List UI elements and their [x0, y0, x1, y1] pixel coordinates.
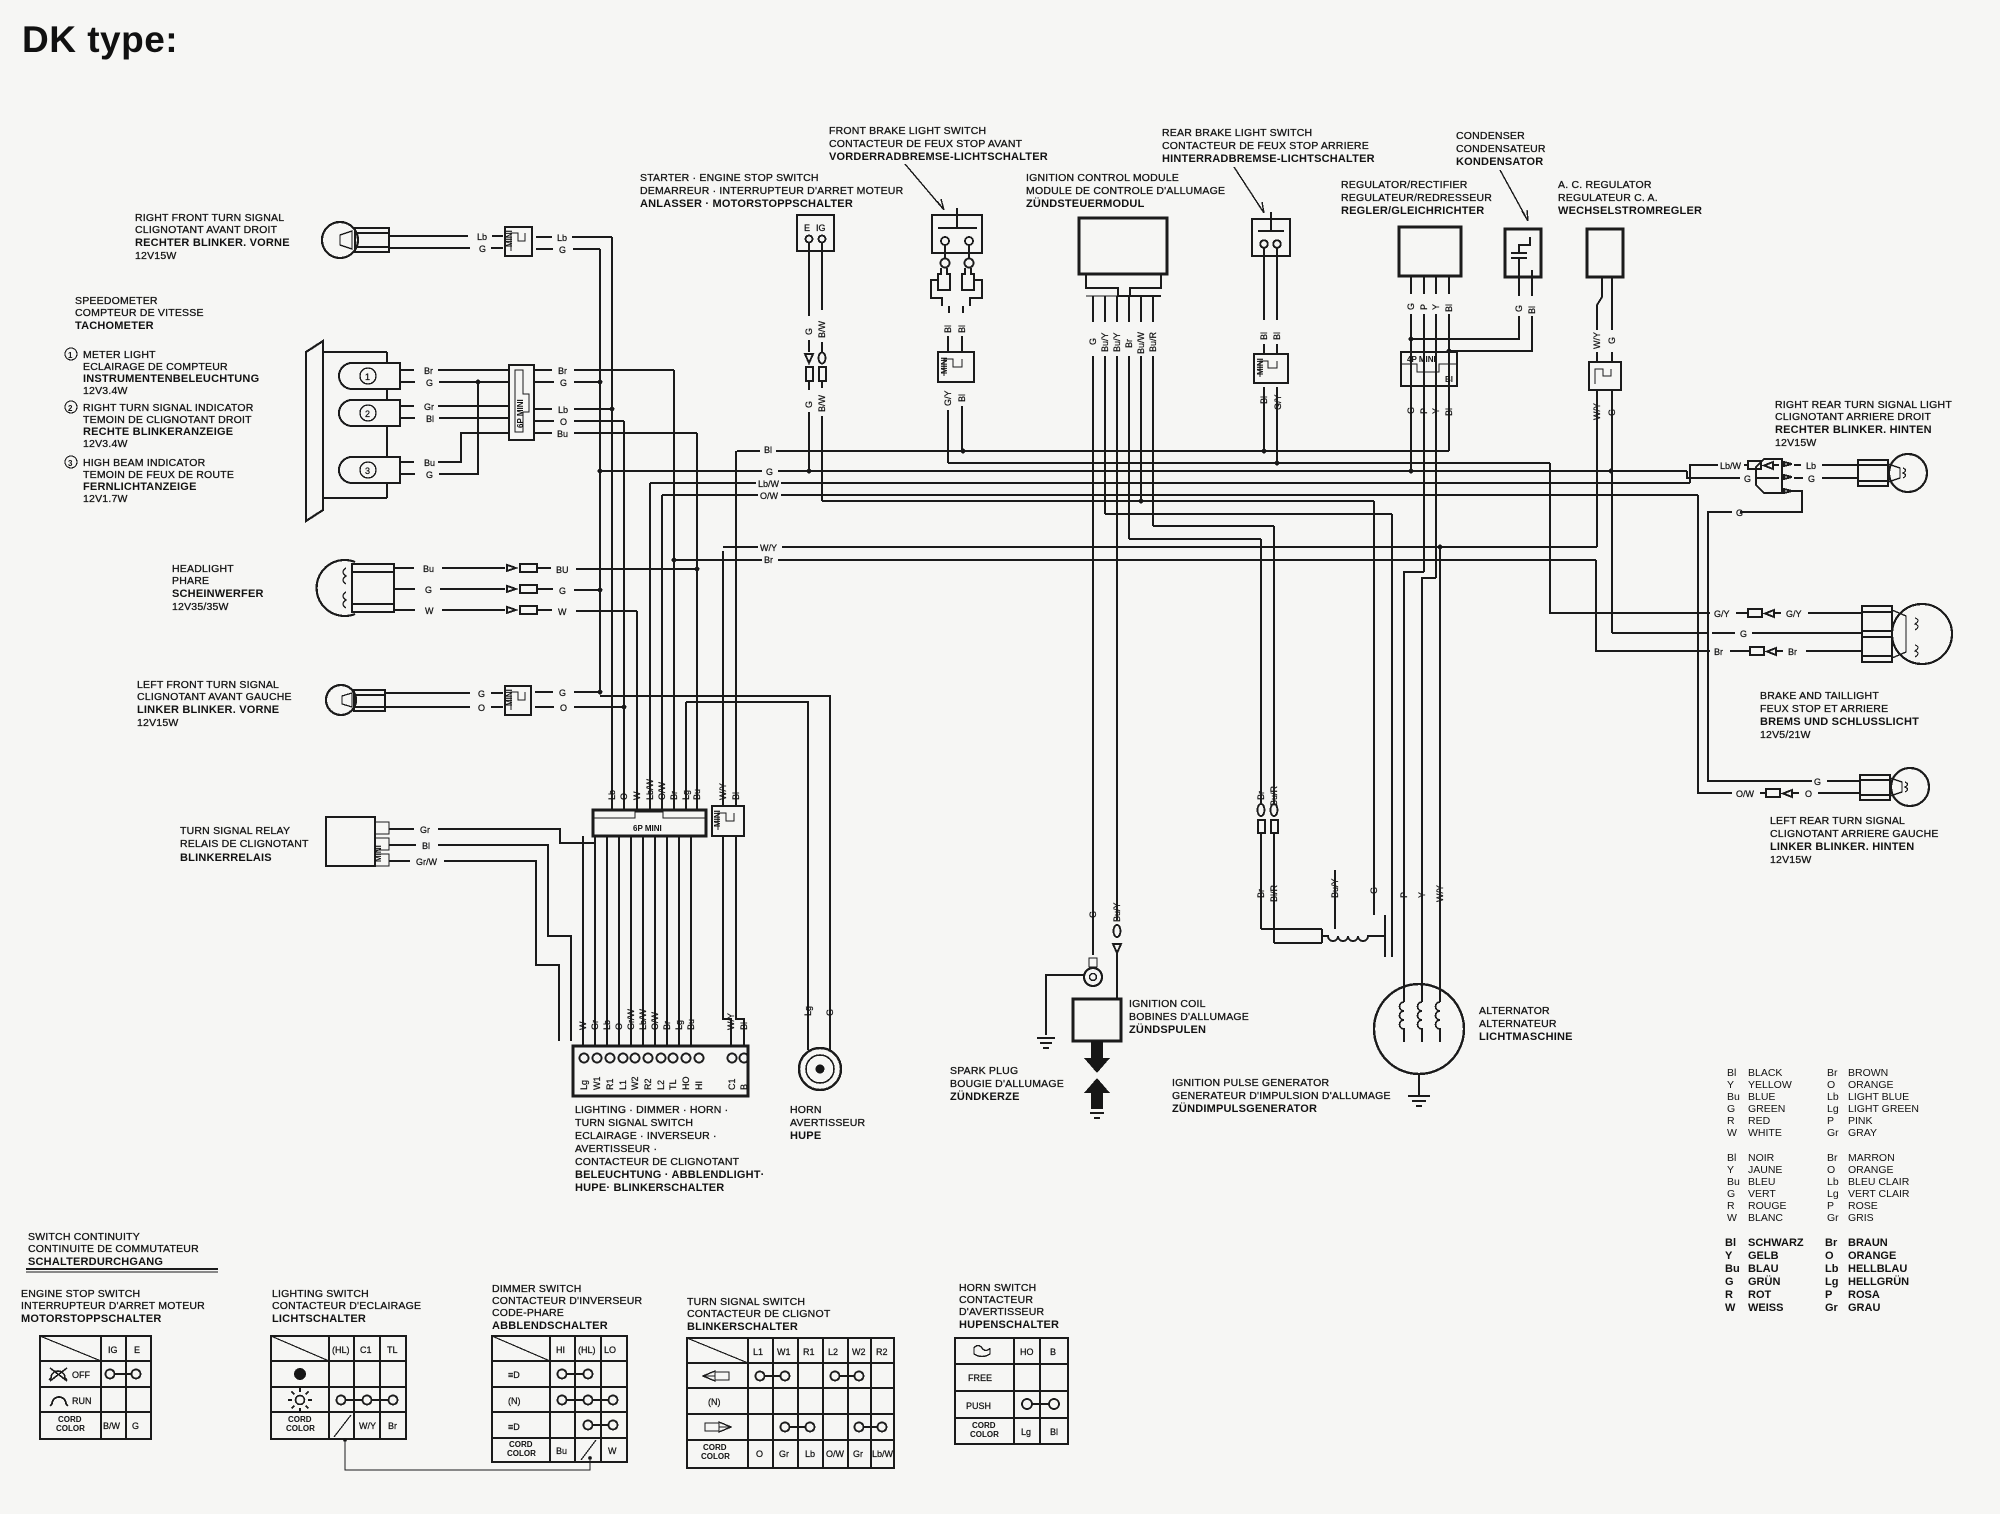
brake and taillight label	[1760, 690, 1919, 741]
svg-text:DEMARREUR · INTERRUPTEUR D'ARR: DEMARREUR · INTERRUPTEUR D'ARRET MOTEUR	[640, 185, 904, 197]
annotation line lighting to dimmer	[345, 1440, 590, 1470]
svg-text:BROWN: BROWN	[1848, 1067, 1888, 1079]
taillight wire Br with bullets	[1596, 560, 1862, 657]
meter connector right wires Br G Lb O Bu	[534, 366, 697, 439]
spark plug arrows	[1084, 1041, 1110, 1109]
ignition coil wire labels G Bu/Y	[1088, 902, 1122, 922]
svg-text:FREE: FREE	[968, 1373, 992, 1383]
svg-text:CLIGNOTANT AVANT DROIT: CLIGNOTANT AVANT DROIT	[135, 224, 278, 236]
svg-text:IGNITION PULSE GENERATOR: IGNITION PULSE GENERATOR	[1172, 1077, 1329, 1089]
svg-text:Bl: Bl	[1725, 1237, 1736, 1249]
svg-text:VORDERRADBREMSE-LICHTSCHALTER: VORDERRADBREMSE-LICHTSCHALTER	[829, 151, 1048, 163]
svg-text:L2: L2	[828, 1347, 838, 1357]
condenser box with capacitor symbol	[1505, 229, 1541, 277]
svg-text:ROT: ROT	[1748, 1289, 1772, 1301]
svg-text:P: P	[1825, 1289, 1832, 1301]
horn	[799, 1040, 841, 1090]
svg-text:G: G	[560, 378, 567, 388]
svg-text:4P MINI: 4P MINI	[1407, 355, 1436, 364]
svg-text:RELAIS DE CLIGNOTANT: RELAIS DE CLIGNOTANT	[180, 838, 309, 850]
svg-text:COLOR: COLOR	[701, 1452, 730, 1461]
svg-text:FERNLICHTANZEIGE: FERNLICHTANZEIGE	[83, 481, 197, 493]
svg-text:Bl: Bl	[1444, 408, 1454, 416]
svg-text:LINKER BLINKER. HINTEN: LINKER BLINKER. HINTEN	[1770, 841, 1914, 853]
svg-text:LIGHTING SWITCH: LIGHTING SWITCH	[272, 1288, 369, 1300]
svg-text:LIGHT GREEN: LIGHT GREEN	[1848, 1103, 1919, 1115]
svg-text:Bu: Bu	[1727, 1091, 1740, 1103]
svg-text:G/Y: G/Y	[1714, 609, 1730, 619]
svg-text:NOIR: NOIR	[1748, 1152, 1775, 1164]
taillight wire G	[1612, 629, 1862, 639]
svg-text:FRONT BRAKE LIGHT SWITCH: FRONT BRAKE LIGHT SWITCH	[829, 125, 986, 137]
svg-text:W2: W2	[852, 1347, 866, 1357]
wire G to left rear turn signal	[1708, 777, 1860, 787]
svg-text:O/W: O/W	[826, 1449, 845, 1459]
svg-text:TACHOMETER: TACHOMETER	[75, 320, 154, 332]
svg-text:Br: Br	[1827, 1067, 1838, 1079]
svg-text:12V15W: 12V15W	[1770, 854, 1811, 866]
condenser wires G Bl	[1409, 270, 1537, 353]
bus O/W	[662, 491, 1698, 501]
svg-text:G: G	[1725, 1276, 1734, 1288]
svg-text:Gr: Gr	[1827, 1212, 1839, 1224]
turn signal switch table	[687, 1338, 894, 1468]
svg-text:1: 1	[68, 351, 73, 360]
svg-text:REGULATOR/RECTIFIER: REGULATOR/RECTIFIER	[1341, 179, 1468, 191]
svg-text:WECHSELSTROMREGLER: WECHSELSTROMREGLER	[1558, 205, 1702, 217]
svg-text:LEFT FRONT TURN SIGNAL: LEFT FRONT TURN SIGNAL	[137, 679, 279, 691]
svg-text:ALTERNATOR: ALTERNATOR	[1479, 1005, 1550, 1017]
svg-text:O: O	[1827, 1079, 1835, 1091]
svg-text:G: G	[478, 689, 485, 699]
svg-text:LINKER BLINKER. VORNE: LINKER BLINKER. VORNE	[137, 704, 279, 716]
svg-text:O/W: O/W	[657, 781, 667, 800]
svg-text:BRAUN: BRAUN	[1848, 1237, 1888, 1249]
svg-text:G: G	[1727, 1103, 1735, 1115]
svg-text:RIGHT FRONT TURN SIGNAL: RIGHT FRONT TURN SIGNAL	[135, 212, 284, 224]
svg-text:Lb: Lb	[805, 1449, 815, 1459]
svg-text:Gr: Gr	[1827, 1127, 1839, 1139]
svg-text:G: G	[426, 378, 433, 388]
svg-text:BLINKERSCHALTER: BLINKERSCHALTER	[687, 1321, 798, 1333]
headlight bulb	[317, 560, 394, 616]
svg-text:G: G	[1736, 508, 1743, 518]
color code legend french	[1727, 1152, 1910, 1224]
svg-text:CONTACTEUR: CONTACTEUR	[959, 1294, 1033, 1306]
svg-text:G: G	[559, 688, 566, 698]
rear brake light switch box	[1252, 212, 1290, 256]
svg-text:G: G	[1740, 629, 1747, 639]
lighting dimmer horn turn signal switch connector	[573, 1046, 749, 1096]
svg-text:Br: Br	[662, 1021, 672, 1030]
svg-text:Bu: Bu	[424, 458, 435, 468]
svg-text:G: G	[1744, 474, 1751, 484]
svg-text:RECHTE BLINKERANZEIGE: RECHTE BLINKERANZEIGE	[83, 426, 233, 438]
svg-text:Bl: Bl	[1527, 306, 1537, 314]
wire vertical G net	[599, 249, 601, 692]
svg-text:Bu: Bu	[1725, 1263, 1740, 1275]
svg-text:CONTACTEUR D'ECLAIRAGE: CONTACTEUR D'ECLAIRAGE	[272, 1300, 421, 1312]
wire G loop third pin	[1708, 491, 1808, 781]
svg-text:BLAU: BLAU	[1748, 1263, 1779, 1275]
svg-text:G: G	[425, 585, 432, 595]
svg-text:BOBINES D'ALLUMAGE: BOBINES D'ALLUMAGE	[1129, 1011, 1249, 1023]
horn wires Lg G	[600, 696, 835, 1048]
svg-text:Lb: Lb	[602, 1020, 612, 1030]
svg-text:12V1.7W: 12V1.7W	[83, 493, 128, 505]
svg-text:Y: Y	[1431, 408, 1441, 414]
ignition control module box	[1079, 218, 1167, 296]
svg-text:HELLBLAU: HELLBLAU	[1848, 1263, 1907, 1275]
wire Lb/W to right rear turn signal	[1690, 461, 1779, 483]
turn signal switch table label	[687, 1296, 831, 1333]
svg-text:LO: LO	[604, 1345, 616, 1355]
svg-text:B: B	[1050, 1347, 1056, 1357]
svg-text:MARRON: MARRON	[1848, 1152, 1895, 1164]
switch label block	[575, 1104, 765, 1194]
wire O/W corner down to left rear	[1698, 495, 1860, 799]
svg-text:Lb/W: Lb/W	[872, 1449, 894, 1459]
svg-text:KONDENSATOR: KONDENSATOR	[1456, 156, 1543, 168]
wires Lb G right of connector	[536, 233, 612, 255]
ignition pulse generator label	[1172, 1077, 1391, 1115]
svg-text:BLUE: BLUE	[1748, 1091, 1775, 1103]
svg-text:ALTERNATEUR: ALTERNATEUR	[1479, 1018, 1557, 1030]
svg-text:SCHWARZ: SCHWARZ	[1748, 1237, 1804, 1249]
regulator rectifier label	[1341, 179, 1492, 217]
svg-text:Lb: Lb	[607, 790, 617, 800]
svg-text:≡D: ≡D	[508, 1370, 520, 1380]
svg-text:GRÜN: GRÜN	[1748, 1275, 1780, 1288]
svg-text:ROSA: ROSA	[1848, 1289, 1880, 1301]
svg-text:Bl: Bl	[1272, 332, 1282, 340]
svg-text:W: W	[1727, 1212, 1737, 1224]
svg-text:LIGHTING · DIMMER · HORN ·: LIGHTING · DIMMER · HORN ·	[575, 1104, 728, 1116]
engine stop switch table label	[21, 1288, 205, 1325]
svg-text:G: G	[766, 467, 773, 477]
svg-text:ANLASSER · MOTORSTOPPSCHALTER: ANLASSER · MOTORSTOPPSCHALTER	[640, 198, 853, 210]
svg-text:COLOR: COLOR	[286, 1424, 315, 1433]
svg-text:HIGH BEAM INDICATOR: HIGH BEAM INDICATOR	[83, 457, 206, 469]
svg-text:Lb: Lb	[477, 232, 487, 242]
svg-text:BLACK: BLACK	[1748, 1067, 1782, 1079]
wire vertical Lb to 6P MINI	[611, 237, 613, 810]
svg-text:Gr/W: Gr/W	[626, 1009, 636, 1030]
svg-text:VERT CLAIR: VERT CLAIR	[1848, 1188, 1910, 1200]
regulator pins G P Y Bl	[1406, 276, 1454, 578]
wires G O from left front turn signal	[385, 689, 503, 713]
svg-text:WHITE: WHITE	[1748, 1127, 1782, 1139]
svg-text:W: W	[558, 607, 567, 617]
front brake light switch	[931, 208, 982, 313]
svg-text:CORD: CORD	[509, 1440, 533, 1449]
svg-text:Lb: Lb	[1806, 461, 1816, 471]
svg-text:Bl: Bl	[957, 394, 967, 402]
rear brake wires Bl G/Y below connector	[1259, 387, 1283, 463]
svg-text:ROUGE: ROUGE	[1748, 1200, 1787, 1212]
svg-text:HO: HO	[1020, 1347, 1034, 1357]
front brake wires G/Y Bl below connector	[943, 390, 967, 463]
svg-text:LICHTMASCHINE: LICHTMASCHINE	[1479, 1031, 1573, 1043]
connector MINI (W/Y Bl)	[712, 806, 744, 836]
svg-text:Br: Br	[1788, 647, 1797, 657]
svg-text:O/W: O/W	[1736, 789, 1755, 799]
svg-text:Br: Br	[1256, 889, 1266, 898]
ground at ignition coil	[1037, 975, 1084, 1048]
svg-text:O: O	[1805, 789, 1812, 799]
svg-text:BLINKERRELAIS: BLINKERRELAIS	[180, 852, 272, 864]
svg-text:Gr: Gr	[853, 1449, 863, 1459]
ignition coil ring terminal	[1084, 958, 1102, 986]
front brake light switch label	[829, 125, 1048, 163]
svg-text:SWITCH CONTINUITY: SWITCH CONTINUITY	[28, 1231, 140, 1243]
bus Br	[672, 555, 1596, 565]
svg-text:P: P	[1827, 1200, 1834, 1212]
left front turn signal label	[137, 679, 292, 729]
svg-text:VERT: VERT	[1748, 1188, 1776, 1200]
svg-text:AVERTISSEUR ·: AVERTISSEUR ·	[575, 1143, 657, 1155]
svg-text:HELLGRÜN: HELLGRÜN	[1848, 1275, 1909, 1288]
svg-text:G: G	[1727, 1188, 1735, 1200]
svg-text:GENERATEUR D'IMPULSION D'ALLUM: GENERATEUR D'IMPULSION D'ALLUMAGE	[1172, 1090, 1391, 1102]
svg-text:W/Y: W/Y	[359, 1421, 376, 1431]
wire labels above switch strip	[578, 1008, 749, 1030]
svg-text:O/W: O/W	[760, 491, 779, 501]
svg-text:HORN SWITCH: HORN SWITCH	[959, 1282, 1036, 1294]
pulse generator wire Br with bullets	[1256, 539, 1322, 929]
svg-text:JAUNE: JAUNE	[1748, 1164, 1782, 1176]
svg-text:ZÜNDKERZE: ZÜNDKERZE	[950, 1090, 1020, 1103]
svg-text:Bl: Bl	[1050, 1427, 1058, 1437]
dimmer switch table label	[492, 1283, 643, 1332]
dimmer switch table	[492, 1336, 627, 1462]
svg-text:Br: Br	[424, 366, 433, 376]
svg-text:SPARK PLUG: SPARK PLUG	[950, 1065, 1018, 1077]
connector 6P MINI (meter)	[509, 365, 534, 440]
horn switch table	[955, 1338, 1068, 1444]
svg-text:Bl/R: Bl/R	[1269, 884, 1279, 902]
svg-text:O: O	[1825, 1250, 1834, 1262]
ignition control module label	[1026, 172, 1225, 210]
svg-text:(N): (N)	[508, 1396, 521, 1406]
svg-text:PINK: PINK	[1848, 1115, 1873, 1127]
svg-text:P: P	[1827, 1115, 1834, 1127]
svg-text:CONTACTEUR D'INVERSEUR: CONTACTEUR D'INVERSEUR	[492, 1295, 643, 1307]
bus G/Y	[948, 461, 1550, 466]
svg-text:Bl: Bl	[957, 325, 967, 333]
svg-text:Gr: Gr	[424, 402, 434, 412]
spark plug label	[950, 1065, 1064, 1103]
svg-text:RUN: RUN	[72, 1396, 92, 1406]
svg-text:P: P	[1419, 304, 1429, 310]
svg-text:GRAU: GRAU	[1848, 1302, 1880, 1314]
svg-text:G: G	[1607, 337, 1617, 344]
relay wire Gr/W	[389, 857, 559, 1041]
svg-text:Bu: Bu	[556, 1446, 567, 1456]
wire G from right front turn signal	[389, 244, 503, 254]
spark plug ground tip	[1090, 1113, 1104, 1118]
svg-text:12V3.4W: 12V3.4W	[83, 438, 128, 450]
svg-text:Y: Y	[1431, 304, 1441, 310]
svg-text:MODULE DE CONTROLE D'ALLUMAGE: MODULE DE CONTROLE D'ALLUMAGE	[1026, 185, 1225, 197]
regulator pin labels below 4P MINI	[1406, 407, 1454, 416]
svg-text:ECLAIRAGE DE COMPTEUR: ECLAIRAGE DE COMPTEUR	[83, 361, 228, 373]
svg-text:G: G	[1088, 338, 1098, 345]
svg-text:O: O	[614, 1023, 624, 1030]
svg-text:PUSH: PUSH	[966, 1401, 991, 1411]
svg-text:Br: Br	[1714, 647, 1723, 657]
svg-text:ZÜNDIMPULSGENERATOR: ZÜNDIMPULSGENERATOR	[1172, 1102, 1317, 1115]
svg-text:REGULATEUR/REDRESSEUR: REGULATEUR/REDRESSEUR	[1341, 192, 1492, 204]
svg-text:Br: Br	[1827, 1152, 1838, 1164]
svg-text:R: R	[1727, 1115, 1735, 1127]
svg-text:MINI: MINI	[1256, 358, 1265, 375]
svg-text:Lg: Lg	[1021, 1427, 1031, 1437]
svg-text:L1: L1	[618, 1080, 628, 1090]
note 2 right turn signal indicator	[65, 401, 254, 450]
svg-text:MINI: MINI	[713, 810, 722, 827]
svg-text:G/Y: G/Y	[943, 390, 953, 406]
svg-text:ROSE: ROSE	[1848, 1200, 1878, 1212]
svg-text:Gr: Gr	[779, 1449, 789, 1459]
svg-text:G: G	[479, 244, 486, 254]
svg-text:ORANGE: ORANGE	[1848, 1250, 1896, 1262]
svg-text:B/W: B/W	[103, 1421, 121, 1431]
svg-text:Bu/R: Bu/R	[1148, 331, 1158, 352]
svg-text:Lg: Lg	[1825, 1276, 1838, 1288]
svg-text:HEADLIGHT: HEADLIGHT	[172, 563, 234, 575]
right rear turn signal bulb	[1858, 454, 1927, 492]
svg-text:R2: R2	[643, 1078, 653, 1090]
turn signal relay label	[180, 825, 309, 864]
branch Bu/R to pulse generator	[1153, 525, 1274, 527]
wire Lb from right front turn signal	[389, 232, 503, 242]
svg-text:BRAKE AND TAILLIGHT: BRAKE AND TAILLIGHT	[1760, 690, 1879, 702]
svg-text:IGNITION CONTROL MODULE: IGNITION CONTROL MODULE	[1026, 172, 1179, 184]
wire vertical Lg to 6P MINI	[685, 702, 687, 810]
svg-text:Gr: Gr	[420, 825, 430, 835]
svg-text:R1: R1	[803, 1347, 815, 1357]
svg-text:RECHTER BLINKER. VORNE: RECHTER BLINKER. VORNE	[135, 237, 290, 249]
svg-text:CODE-PHARE: CODE-PHARE	[492, 1307, 564, 1319]
svg-text:Lb: Lb	[1827, 1176, 1839, 1188]
turn signal relay box	[326, 817, 389, 866]
svg-text:SPEEDOMETER: SPEEDOMETER	[75, 295, 158, 307]
svg-text:BU: BU	[556, 565, 569, 575]
relay wire Bl	[389, 841, 571, 1041]
svg-text:METER LIGHT: METER LIGHT	[83, 349, 156, 361]
taillight wire G/Y with bullets	[1640, 609, 1862, 619]
rear brake wires Bl Bl	[1259, 248, 1282, 354]
svg-text:Y: Y	[1725, 1250, 1733, 1262]
svg-text:Lb: Lb	[1827, 1091, 1839, 1103]
svg-text:TURN SIGNAL SWITCH: TURN SIGNAL SWITCH	[687, 1296, 805, 1308]
svg-text:CONTACTEUR DE FEUX STOP AVANT: CONTACTEUR DE FEUX STOP AVANT	[829, 138, 1023, 150]
front brake label arrow	[905, 164, 944, 210]
svg-text:Lg: Lg	[803, 1006, 813, 1016]
svg-text:HINTERRADBREMSE-LICHTSCHALTER: HINTERRADBREMSE-LICHTSCHALTER	[1162, 153, 1375, 165]
svg-text:STARTER · ENGINE STOP SWITCH: STARTER · ENGINE STOP SWITCH	[640, 172, 819, 184]
svg-text:D'AVERTISSEUR: D'AVERTISSEUR	[959, 1306, 1045, 1318]
svg-text:RIGHT REAR TURN SIGNAL LIGHT: RIGHT REAR TURN SIGNAL LIGHT	[1775, 399, 1952, 411]
svg-text:G/Y: G/Y	[1273, 394, 1283, 410]
svg-text:ORANGE: ORANGE	[1848, 1164, 1894, 1176]
rear brake light switch label	[1162, 127, 1375, 165]
brake and taillight bulb	[1862, 604, 1952, 664]
svg-text:BREMS UND SCHLUSSLICHT: BREMS UND SCHLUSSLICHT	[1760, 716, 1919, 728]
connector MINI (right front turn signal)	[505, 227, 532, 256]
svg-text:RIGHT TURN SIGNAL INDICATOR: RIGHT TURN SIGNAL INDICATOR	[83, 402, 254, 414]
svg-text:G: G	[1406, 303, 1416, 310]
svg-text:3: 3	[68, 459, 73, 468]
wire vertical Bu to 6P MINI	[696, 433, 698, 810]
svg-text:W: W	[608, 1446, 617, 1456]
starter engine stop switch label	[640, 172, 904, 210]
svg-text:6P MINI: 6P MINI	[633, 824, 662, 833]
svg-text:CONTINUITE DE COMMUTATEUR: CONTINUITE DE COMMUTATEUR	[28, 1243, 199, 1255]
svg-text:Bl: Bl	[1727, 1067, 1736, 1079]
svg-text:CORD: CORD	[288, 1415, 312, 1424]
svg-text:GELB: GELB	[1748, 1250, 1779, 1262]
lighting switch table	[271, 1336, 406, 1439]
svg-text:Bu: Bu	[557, 429, 568, 439]
svg-text:R: R	[1725, 1289, 1733, 1301]
svg-text:Bl: Bl	[1727, 1152, 1736, 1164]
svg-text:(N): (N)	[708, 1397, 721, 1407]
left rear turn signal bulb	[1860, 768, 1929, 806]
svg-text:DIMMER SWITCH: DIMMER SWITCH	[492, 1283, 582, 1295]
svg-text:MOTORSTOPPSCHALTER: MOTORSTOPPSCHALTER	[21, 1313, 162, 1325]
wire vertical Br to 6P MINI	[673, 370, 675, 810]
svg-text:G: G	[559, 586, 566, 596]
svg-text:(HL): (HL)	[332, 1345, 350, 1355]
svg-text:BELEUCHTUNG · ABBLENDLIGHT·: BELEUCHTUNG · ABBLENDLIGHT·	[575, 1169, 765, 1181]
svg-text:O: O	[619, 793, 629, 800]
pulse generator coil	[1322, 915, 1392, 957]
svg-text:Y: Y	[1727, 1164, 1734, 1176]
svg-text:G: G	[804, 401, 814, 408]
svg-text:GREEN: GREEN	[1748, 1103, 1785, 1115]
svg-text:CONDENSATEUR: CONDENSATEUR	[1456, 143, 1546, 155]
svg-text:12V5/21W: 12V5/21W	[1760, 729, 1811, 741]
svg-text:ABBLENDSCHALTER: ABBLENDSCHALTER	[492, 1320, 608, 1332]
regulator rectifier box	[1399, 227, 1461, 276]
headlight label	[172, 563, 264, 613]
svg-text:CONTACTEUR DE CLIGNOT: CONTACTEUR DE CLIGNOT	[687, 1308, 831, 1320]
svg-text:CORD: CORD	[703, 1443, 727, 1452]
svg-text:COLOR: COLOR	[970, 1430, 999, 1439]
svg-text:TEMOIN DE CLIGNOTANT DROIT: TEMOIN DE CLIGNOTANT DROIT	[83, 414, 252, 426]
svg-text:REAR BRAKE LIGHT SWITCH: REAR BRAKE LIGHT SWITCH	[1162, 127, 1312, 139]
bus Lb/W	[650, 479, 1690, 489]
svg-text:COLOR: COLOR	[507, 1449, 536, 1458]
svg-text:TURN SIGNAL SWITCH: TURN SIGNAL SWITCH	[575, 1117, 693, 1129]
svg-text:B/W: B/W	[817, 394, 827, 412]
svg-text:12V3.4W: 12V3.4W	[83, 385, 128, 397]
svg-text:Lb: Lb	[557, 233, 567, 243]
svg-text:Bl: Bl	[426, 414, 434, 424]
svg-text:(HL): (HL)	[578, 1345, 596, 1355]
horn label	[790, 1104, 866, 1142]
svg-text:LIGHT BLUE: LIGHT BLUE	[1848, 1091, 1909, 1103]
svg-text:FEUX STOP ET ARRIERE: FEUX STOP ET ARRIERE	[1760, 703, 1888, 715]
svg-text:W: W	[425, 606, 434, 616]
note 3 high beam indicator	[65, 456, 234, 505]
svg-text:Bu: Bu	[686, 1019, 696, 1030]
bus G horizontal	[598, 469, 1687, 474]
svg-text:Br: Br	[388, 1421, 397, 1431]
svg-text:GRIS: GRIS	[1848, 1212, 1874, 1224]
